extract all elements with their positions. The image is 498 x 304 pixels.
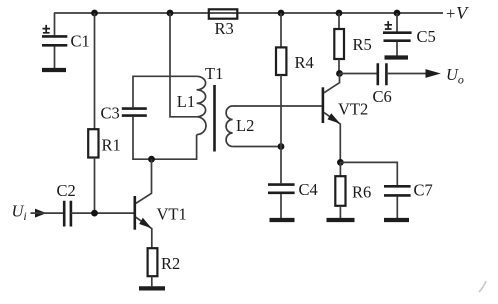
svg-text:R2: R2 bbox=[161, 254, 180, 273]
svg-text:T1: T1 bbox=[205, 64, 223, 83]
resistor R5 bbox=[334, 29, 344, 59]
svg-text:R6: R6 bbox=[352, 183, 371, 202]
resistor R3 (top) bbox=[209, 9, 238, 18]
wire C5 bottom lead bbox=[396, 42, 398, 56]
svg-text:C6: C6 bbox=[373, 87, 392, 106]
resistor R4 bbox=[276, 47, 286, 75]
ground below R2 bbox=[139, 286, 165, 290]
junction dot rail/R4 branch bbox=[278, 10, 285, 17]
wire C3 top / L1 top bbox=[133, 76, 197, 107]
wire R2 bottom lead bbox=[151, 276, 153, 286]
transistor VT1 collector bbox=[136, 159, 152, 203]
input arrow bbox=[35, 209, 46, 218]
capacitor C1 positive mark bbox=[43, 25, 51, 33]
transistor VT2 emitter arrow bbox=[328, 113, 341, 123]
wire R5 top lead bbox=[338, 13, 340, 29]
svg-text:C4: C4 bbox=[299, 180, 318, 199]
junction dot rail/L1 tap branch bbox=[167, 10, 174, 17]
resistor R6 bbox=[335, 176, 345, 206]
svg-text:R4: R4 bbox=[295, 53, 314, 72]
wire R1 top lead bbox=[94, 13, 96, 129]
wire node to C4 bbox=[280, 147, 282, 184]
wire R5 bottom lead bbox=[338, 59, 340, 74]
capacitor C1 plates bbox=[42, 36, 67, 45]
svg-text:VT1: VT1 bbox=[157, 205, 187, 224]
transistor VT1 base bar bbox=[134, 196, 137, 230]
ground below C5 bbox=[385, 55, 409, 59]
capacitor C1 top lead wire bbox=[54, 13, 56, 35]
wire L2 bottom to R4/C4 node bbox=[233, 146, 281, 148]
svg-text:+V: +V bbox=[445, 3, 469, 23]
wire: +V supply rail bbox=[54, 12, 443, 14]
svg-text:R1: R1 bbox=[102, 136, 121, 155]
svg-text:Uo: Uo bbox=[446, 65, 464, 87]
junction dot collector/L1 bbox=[148, 156, 155, 163]
junction dot C2/R1/base bbox=[91, 210, 98, 217]
wire emitter node to C7 bbox=[340, 162, 397, 185]
svg-text:VT2: VT2 bbox=[338, 100, 368, 119]
ground below C7 bbox=[384, 218, 409, 222]
transformer T1 core bbox=[213, 85, 216, 152]
junction dot rail/R5 branch bbox=[336, 10, 343, 17]
capacitor C3 plates bbox=[122, 109, 147, 116]
wire C3 bottom / L1 bottom / collector net bbox=[133, 117, 197, 159]
ground below C1 bbox=[42, 68, 66, 72]
junction dot R5/C6/collector bbox=[336, 70, 343, 77]
svg-text:C1: C1 bbox=[71, 32, 90, 51]
svg-text:R5: R5 bbox=[353, 35, 372, 54]
inductor L2 (3 turns) bbox=[226, 106, 232, 147]
svg-text:R3: R3 bbox=[215, 19, 234, 38]
resistor R2 bbox=[148, 248, 158, 276]
junction dot emitter/R6/C7 bbox=[337, 159, 344, 166]
svg-text:C7: C7 bbox=[414, 181, 433, 200]
wire R6 top lead bbox=[339, 162, 341, 176]
capacitor C1 bottom lead wire bbox=[54, 47, 56, 69]
transistor VT2 collector bbox=[324, 74, 340, 93]
ground below C4 bbox=[270, 218, 295, 222]
wire R1 bottom lead bbox=[94, 158, 96, 214]
wire C7 bottom lead bbox=[396, 197, 398, 219]
wire R4 top lead bbox=[280, 13, 282, 47]
capacitor C4 plates bbox=[268, 185, 295, 193]
svg-text:Ui: Ui bbox=[12, 202, 27, 224]
wire C5 top lead bbox=[396, 13, 398, 32]
wire L2 top to VT2 base bbox=[233, 105, 323, 107]
wire rail to L1 center tap bbox=[170, 13, 197, 117]
wire input lead bbox=[31, 212, 65, 214]
svg-text:L1: L1 bbox=[177, 92, 195, 111]
ground below R6 bbox=[327, 218, 355, 222]
transistor VT1 emitter arrow bbox=[139, 218, 151, 228]
svg-text:C2: C2 bbox=[57, 181, 76, 200]
resistor R1 bbox=[88, 129, 98, 157]
transistor VT2 emitter bbox=[324, 112, 340, 162]
output arrow bbox=[426, 69, 441, 78]
junction dot rail/R1 branch bbox=[91, 10, 98, 17]
wire C6 input bbox=[340, 73, 378, 75]
inductor L1 (4 turns, tap before last) bbox=[197, 76, 206, 134]
capacitor C6 plates bbox=[378, 63, 387, 85]
wire C4 bottom lead bbox=[280, 194, 282, 218]
capacitor C7 plates bbox=[384, 186, 411, 195]
capacitor C5 plates bbox=[383, 33, 412, 41]
wire C6 output lead bbox=[386, 73, 428, 75]
transistor VT2 base bar bbox=[322, 87, 325, 123]
junction dot L2/R4/C4 bbox=[278, 143, 285, 150]
wire R6 bottom lead bbox=[339, 206, 341, 218]
junction dot rail/C5 branch bbox=[394, 10, 401, 17]
svg-text:C3: C3 bbox=[101, 104, 120, 123]
svg-text:C5: C5 bbox=[417, 27, 436, 46]
svg-text:L2: L2 bbox=[236, 116, 254, 135]
scan artifact bottom right bbox=[479, 281, 486, 292]
capacitor C5 positive mark bbox=[385, 21, 393, 29]
wire C2 to VT1 base bbox=[71, 212, 135, 214]
transistor VT1 emitter bbox=[136, 217, 152, 248]
capacitor C2 plates bbox=[64, 201, 71, 227]
wire R4 bottom lead bbox=[280, 75, 282, 147]
